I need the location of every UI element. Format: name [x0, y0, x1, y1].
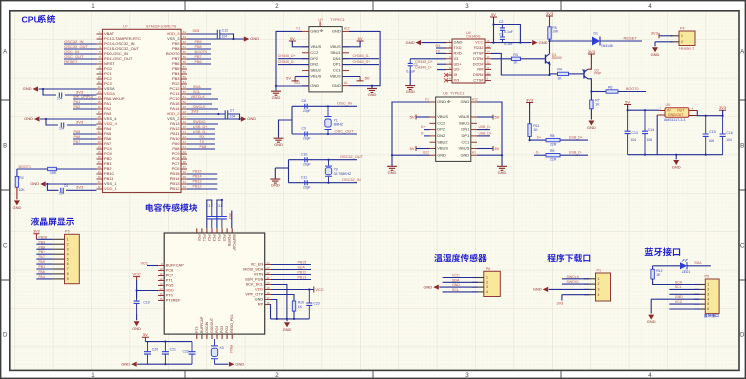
wire PA2 — [73, 108, 97, 110]
ground GND P6 — [423, 284, 438, 289]
svg-text:SCL: SCL — [675, 285, 682, 289]
svg-text:3V3: 3V3 — [76, 185, 84, 190]
svg-text:PC6: PC6 — [166, 269, 174, 273]
svg-text:5V: 5V — [286, 75, 291, 80]
svg-text:C18: C18 — [216, 204, 222, 208]
wire VDD_3 3V3 — [187, 33, 217, 35]
ground GND VSS_4 — [24, 116, 39, 121]
svg-text:37: 37 — [183, 165, 187, 169]
svg-text:23: 23 — [98, 140, 102, 144]
wire C19 to gnd — [136, 314, 138, 320]
svg-text:22: 22 — [98, 135, 102, 139]
junction C23 top — [308, 288, 310, 290]
junction C18 top — [221, 199, 223, 201]
svg-text:PB12: PB12 — [298, 270, 307, 274]
svg-text:VDD_1: VDD_1 — [104, 186, 118, 191]
junction VSSA — [42, 88, 44, 90]
net label OSC_IN — [337, 101, 352, 106]
C8 value — [303, 109, 311, 113]
svg-text:58: 58 — [183, 60, 187, 64]
svg-text:CC2: CC2 — [437, 120, 446, 125]
svg-text:48: 48 — [183, 110, 187, 114]
wire Q1 to R4 — [550, 73, 558, 75]
LED LED1 — [680, 259, 688, 269]
svg-text:1K: 1K — [557, 77, 562, 81]
svg-text:GND: GND — [271, 183, 280, 188]
ground GND P1 — [533, 287, 548, 292]
C5 value — [57, 96, 63, 100]
wire U5 gnd down — [656, 115, 658, 155]
wire TYPEC1 A1 — [477, 154, 502, 156]
svg-text:PG2: PG2 — [225, 326, 229, 333]
svg-text:SCL: SCL — [193, 90, 200, 94]
U3 bottom pin names — [195, 314, 234, 333]
svg-text:GND: GND — [651, 52, 660, 57]
svg-text:C7: C7 — [230, 109, 234, 113]
svg-text:3: 3 — [486, 285, 488, 289]
svg-text:49: 49 — [183, 105, 187, 109]
svg-text:TXD: TXD — [454, 45, 462, 50]
net label SWCLK p1 — [567, 275, 580, 279]
crystal Y1 8MHz — [325, 106, 332, 134]
wire PB13 cpu — [187, 183, 217, 185]
svg-text:16: 16 — [98, 105, 102, 109]
svg-text:4: 4 — [598, 293, 600, 297]
ground GND C19 — [132, 321, 141, 331]
net label USB_D+ cpu — [193, 125, 208, 129]
svg-text:DP1: DP1 — [333, 62, 342, 67]
wire 3V3 to R5 — [549, 16, 551, 27]
svg-text:4: 4 — [67, 252, 69, 256]
wire CH340_D+ to DP2 — [278, 58, 309, 60]
svg-text:104: 104 — [726, 138, 732, 142]
wire Q2 to R6 — [591, 91, 606, 93]
capacitor C17 — [207, 207, 217, 228]
svg-text:GND: GND — [121, 361, 130, 366]
wire P3 row5 — [36, 258, 52, 260]
svg-text:BOOT1: BOOT1 — [19, 165, 32, 169]
wire BOOT0 right — [187, 53, 211, 55]
capacitor C20 — [144, 342, 151, 365]
svg-text:C16: C16 — [726, 131, 732, 135]
svg-text:USB_D-: USB_D- — [193, 130, 207, 134]
svg-text:PB13: PB13 — [298, 275, 307, 279]
svg-text:D1: D1 — [594, 31, 598, 35]
capacitor C18 — [217, 207, 227, 228]
svg-text:GND: GND — [460, 152, 469, 157]
C16 refdes — [726, 131, 732, 135]
U1 right pin stubs and numbers — [181, 30, 187, 189]
wire R12 bottom — [653, 279, 700, 285]
U4 refdes — [466, 31, 471, 35]
svg-text:20pF: 20pF — [303, 137, 311, 141]
svg-text:PORTB: PORTB — [227, 235, 231, 248]
power 5V U2 lower-right — [357, 75, 370, 81]
Q1 refdes — [552, 53, 557, 57]
svg-text:24: 24 — [98, 145, 102, 149]
svg-text:R9: R9 — [550, 149, 554, 153]
wire P1 3V3 drop — [561, 295, 563, 301]
svg-text:GND: GND — [423, 284, 432, 289]
svg-text:GND: GND — [12, 205, 21, 210]
capacitor C12 — [217, 30, 220, 39]
C10 refdes — [301, 152, 307, 156]
svg-text:3V3: 3V3 — [191, 108, 199, 113]
svg-text:GND: GND — [24, 116, 33, 121]
svg-text:10K: 10K — [19, 188, 26, 192]
wire RX cpu — [187, 138, 215, 140]
svg-text:0.1uF: 0.1uF — [406, 69, 415, 73]
wire USB_D+ cpu — [187, 128, 215, 130]
svg-text:B: B — [3, 143, 7, 150]
power VCC U3 — [132, 271, 141, 280]
C14 value — [647, 138, 653, 142]
svg-text:RESET: RESET — [64, 59, 78, 64]
svg-text:PB7: PB7 — [195, 55, 202, 59]
svg-text:GND: GND — [587, 125, 596, 130]
svg-text:DP2: DP2 — [310, 56, 319, 61]
junction C21 top — [164, 341, 166, 343]
svg-text:D+: D+ — [537, 136, 541, 140]
junction VDD_2 — [217, 113, 219, 115]
power 5V TYPEC1 lower-right — [493, 146, 500, 151]
junction C2 top — [492, 23, 494, 25]
R8 value — [550, 142, 557, 146]
svg-text:P1: P1 — [597, 269, 602, 273]
net label P6 GND — [452, 283, 460, 287]
R3 value — [513, 60, 518, 64]
svg-text:22: 22 — [267, 271, 271, 275]
connector TYPEC1 body — [436, 97, 471, 161]
svg-text:C14: C14 — [648, 128, 654, 132]
svg-text:VBUS: VBUS — [437, 146, 448, 151]
svg-text:A12: A12 — [472, 97, 478, 101]
svg-text:PA7: PA7 — [74, 140, 81, 144]
svg-text:56: 56 — [183, 70, 187, 74]
net label 3V3 at VDD_2 — [191, 108, 199, 113]
svg-text:GND: GND — [437, 99, 446, 104]
wire R5 to Q1 collector — [549, 39, 551, 54]
svg-text:OSC32_OUT: OSC32_OUT — [340, 155, 364, 159]
svg-text:GND: GND — [332, 83, 341, 88]
svg-text:1: 1 — [486, 276, 488, 280]
svg-text:U?: U? — [318, 18, 323, 22]
svg-text:VBUS: VBUS — [437, 114, 448, 119]
junction VDD U3 — [136, 289, 138, 291]
svg-text:U6: U6 — [443, 92, 448, 96]
capacitor C16 — [720, 116, 726, 155]
U2 pin A1 — [344, 81, 348, 85]
D1 value — [601, 44, 613, 48]
wire SCL — [187, 93, 211, 95]
wire R2 to ground — [16, 187, 18, 199]
wire OSC32_OUT — [64, 48, 97, 50]
wire Q2 collector — [588, 54, 591, 69]
svg-text:USB_D+: USB_D+ — [193, 125, 208, 129]
crystal X3 — [211, 339, 218, 364]
wire D- to DN2 — [424, 135, 430, 137]
svg-text:3V3: 3V3 — [588, 49, 596, 54]
R6 refdes — [608, 86, 612, 90]
svg-text:V3: V3 — [454, 56, 460, 61]
net label RESET — [624, 35, 638, 40]
wire BOOT1 to R2 — [16, 169, 18, 176]
R4 value — [557, 77, 562, 81]
svg-text:54: 54 — [183, 80, 187, 84]
Y1 value — [334, 122, 343, 126]
svg-text:CH340G: CH340G — [466, 35, 481, 39]
C12 refdes — [222, 29, 228, 33]
svg-text:GND: GND — [23, 86, 32, 91]
svg-text:20: 20 — [98, 125, 102, 129]
R7 value — [595, 102, 600, 106]
svg-text:42: 42 — [183, 140, 187, 144]
title CPU system — [22, 14, 56, 24]
svg-text:104: 104 — [59, 126, 65, 130]
capacitor C9 — [305, 132, 307, 137]
wire R1 to PB2 — [56, 168, 96, 170]
svg-text:PB9: PB9 — [39, 240, 46, 244]
Y2 value — [334, 172, 351, 176]
svg-text:PA4: PA4 — [39, 275, 45, 279]
svg-text:46: 46 — [183, 120, 187, 124]
wire R11 to D+ row — [530, 136, 546, 140]
wire VSSA — [39, 88, 97, 90]
svg-text:A1: A1 — [472, 151, 476, 155]
svg-text:C4: C4 — [64, 184, 68, 188]
svg-text:45: 45 — [183, 125, 187, 129]
svg-text:104: 104 — [631, 138, 637, 142]
power 3V3 P4 — [651, 30, 659, 38]
svg-text:VBUS: VBUS — [458, 114, 469, 119]
net label OSC_OUT — [335, 128, 355, 133]
svg-text:13: 13 — [487, 55, 491, 59]
svg-text:PT3: PT3 — [195, 326, 199, 332]
connector P5 body — [705, 279, 719, 314]
U3 left pin stubs — [158, 262, 164, 301]
svg-text:3V3: 3V3 — [557, 302, 564, 306]
R4 refdes — [557, 68, 561, 72]
svg-text:PT1: PT1 — [166, 279, 173, 283]
svg-text:OSC32_IN: OSC32_IN — [342, 178, 361, 182]
svg-text:5V: 5V — [358, 36, 363, 41]
svg-text:3V3: 3V3 — [76, 89, 84, 94]
svg-text:PB7: PB7 — [39, 250, 46, 254]
svg-text:25: 25 — [98, 150, 102, 154]
net label SDA — [193, 85, 201, 89]
svg-text:USB_D-: USB_D- — [569, 151, 583, 155]
wire C4 to VDD_1 — [66, 189, 97, 191]
svg-text:2: 2 — [707, 288, 709, 292]
wire P6 VCC — [443, 277, 478, 279]
svg-text:C2: C2 — [499, 20, 503, 24]
net label CH340_D- u4 — [415, 66, 433, 70]
junction U3 rail b — [286, 318, 288, 320]
power 5V TYPEC1 upper-right — [493, 114, 500, 119]
resistor R3 — [511, 57, 520, 60]
P4 pin stubs — [671, 36, 680, 42]
wire D1 to RESET — [600, 40, 642, 42]
wire U3 bottom rail — [271, 318, 310, 320]
svg-text:SWDIO: SWDIO — [193, 120, 206, 124]
capacitor C19 — [134, 291, 140, 315]
svg-text:PG4: PG4 — [215, 326, 219, 333]
svg-text:B12: B12 — [295, 81, 301, 85]
wire R9 to USB_D- — [560, 154, 588, 156]
net label CH340_D+ u4 — [415, 60, 433, 64]
svg-text:3V3: 3V3 — [228, 213, 232, 219]
svg-text:VDD: VDD — [255, 288, 263, 292]
C2 value — [504, 30, 513, 34]
svg-text:35: 35 — [183, 175, 187, 179]
wire PA15 — [187, 103, 212, 105]
net label P3 PA4 — [39, 275, 45, 279]
svg-text:C23: C23 — [313, 301, 319, 305]
ground GND R7 — [587, 121, 596, 131]
svg-text:SDA: SDA — [298, 265, 306, 269]
wire U3 PB13 — [271, 279, 311, 281]
wire LED1 anode — [653, 265, 680, 267]
P4 pin numbers — [681, 34, 683, 44]
transistor Q1 S8050 — [546, 54, 550, 64]
svg-text:P4: P4 — [680, 27, 685, 31]
resistor R11 — [528, 124, 531, 137]
net label OSC_IN — [64, 49, 79, 54]
U5 pin stubs — [657, 111, 697, 116]
svg-text:26: 26 — [98, 155, 102, 159]
svg-text:0.1uF: 0.1uF — [504, 42, 513, 46]
svg-text:PA7: PA7 — [39, 255, 45, 259]
MCU U1 STM32F103RCT6 body — [103, 29, 182, 192]
svg-text:CH340_D+: CH340_D+ — [278, 54, 296, 58]
svg-text:20pF: 20pF — [303, 185, 311, 189]
svg-text:GND/OUT: GND/OUT — [668, 113, 683, 117]
wire U3 PB12 — [271, 274, 311, 276]
wire U5 gnd stub — [675, 155, 677, 160]
resistor R10 — [292, 301, 295, 311]
junction U3 rail c — [293, 318, 295, 320]
net label VCC p5 — [675, 300, 683, 304]
ground GND U2 right — [367, 88, 377, 97]
net label P3 PB1 — [39, 265, 46, 269]
title program download port — [547, 254, 590, 262]
title LCD display — [31, 217, 74, 225]
svg-text:GND: GND — [274, 142, 283, 147]
wire PB12 cpu — [187, 188, 217, 190]
svg-text:C: C — [740, 243, 745, 250]
svg-text:43: 43 — [183, 135, 187, 139]
net label CH340_D+ right — [353, 60, 371, 64]
U4 value — [466, 35, 481, 39]
capacitor C11 — [305, 180, 307, 185]
svg-text:20: 20 — [267, 281, 271, 285]
net label USB_D- r9 — [569, 151, 583, 155]
svg-text:PA6: PA6 — [74, 135, 81, 139]
D1 refdes — [594, 31, 598, 35]
svg-text:52: 52 — [183, 90, 187, 94]
svg-text:C3: C3 — [499, 33, 503, 37]
R7 refdes — [595, 99, 599, 103]
svg-text:PB08: PB08 — [39, 235, 48, 239]
svg-text:F1: F1 — [296, 27, 300, 31]
svg-text:BUFFCAP: BUFFCAP — [166, 264, 184, 268]
TYPEC1 left pin stubs — [430, 102, 436, 155]
wire U5 bottom rail — [628, 154, 723, 156]
svg-text:50: 50 — [183, 100, 187, 104]
svg-text:USB_D-: USB_D- — [479, 125, 491, 129]
svg-text:PA8: PA8 — [200, 145, 207, 149]
P5 refdes — [705, 274, 710, 278]
svg-text:D+: D+ — [421, 125, 425, 129]
svg-text:VCC: VCC — [475, 40, 484, 45]
Y1 refdes — [334, 118, 338, 122]
P3 pin numbers — [67, 238, 69, 282]
svg-text:PB14: PB14 — [193, 174, 202, 178]
svg-text:R2: R2 — [19, 176, 23, 180]
svg-text:PB12: PB12 — [193, 184, 202, 188]
X3 refdes — [220, 346, 224, 350]
C6 value — [59, 126, 65, 130]
svg-text:RX: RX — [200, 135, 206, 139]
wire P5 row2 — [669, 288, 699, 290]
svg-text:GND: GND — [672, 165, 681, 170]
ground GND VSS_3 — [244, 36, 259, 41]
net label OSC32_IN — [64, 39, 83, 44]
wire U3 RP — [270, 305, 273, 319]
crystal Y2 32.768KHZ — [325, 160, 332, 183]
wire OSC_IN net — [292, 105, 357, 107]
svg-text:GND: GND — [388, 170, 397, 175]
svg-text:6: 6 — [707, 307, 709, 311]
svg-text:OSC_IN: OSC_IN — [337, 101, 352, 106]
svg-text:GND: GND — [310, 83, 319, 88]
U1 left pin names — [104, 31, 141, 191]
svg-text:U5: U5 — [666, 103, 670, 107]
net label U3 PB12 — [298, 270, 307, 274]
wire Q1 emitter down — [549, 64, 551, 75]
U3 right pin names — [243, 263, 264, 307]
ground GND VSS_2 — [241, 116, 256, 121]
svg-text:2: 2 — [275, 372, 279, 379]
net label CH340_D+ left — [278, 54, 296, 58]
svg-text:104: 104 — [57, 96, 63, 100]
U5 pin 4 — [692, 107, 694, 111]
junction rail c14 — [644, 154, 646, 156]
net label SWCLK — [193, 105, 207, 109]
svg-text:P6: P6 — [486, 267, 491, 271]
IC U3 touch sensor body — [164, 233, 265, 334]
svg-text:U?: U? — [123, 25, 128, 29]
wire P5 row6 — [669, 308, 699, 310]
U2 refdes — [318, 18, 323, 22]
power 5V U2 lower-left — [286, 75, 298, 81]
wire U4 RXD — [436, 52, 446, 54]
svg-text:VCC: VCC — [675, 300, 683, 304]
net label WK_UP — [74, 95, 93, 99]
svg-text:59: 59 — [183, 55, 187, 59]
capacitor C4 — [61, 188, 63, 193]
wire P5 gnd drop — [650, 299, 652, 313]
svg-text:28: 28 — [98, 165, 102, 169]
C16 value — [726, 138, 732, 142]
wire touch bottom rail — [145, 341, 192, 343]
junction Q1 emitter — [548, 74, 550, 76]
wire 3V3 to R11 — [529, 103, 531, 124]
svg-text:8MHZ: 8MHZ — [334, 122, 343, 126]
svg-text:19: 19 — [267, 286, 271, 290]
capacitor C1 — [408, 59, 413, 71]
net label GND p5 — [675, 295, 683, 299]
